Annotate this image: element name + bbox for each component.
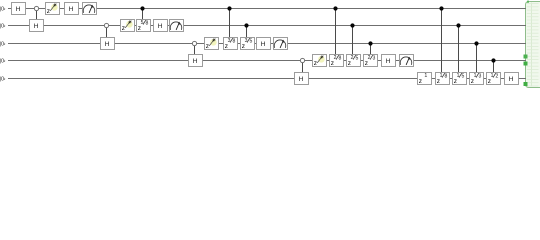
svg-text:3: 3: [372, 56, 375, 62]
open control q2 (drives H q3): [104, 23, 108, 27]
gate Z^3/5 q3: [241, 38, 255, 50]
svg-text:1: 1: [474, 73, 477, 79]
svg-text:|0›: |0›: [0, 7, 6, 13]
open control q4 (drives H q5): [300, 58, 304, 62]
gate Z^5/8 q2: [137, 20, 151, 32]
svg-text:|0›: |0›: [0, 59, 6, 65]
control line x194.5: [194, 43, 196, 55]
gate H q3 col: [257, 38, 271, 50]
panel texture lines: [527, 4, 539, 87]
control dot q1 -> Z3/8 q3: [227, 6, 231, 10]
gate Z^1 q5: [418, 73, 432, 85]
gate H q3 (controlled): [101, 38, 115, 50]
control dot q2 -> Z3/5 q3: [244, 23, 248, 27]
control line x106.5: [106, 25, 108, 38]
svg-text:8: 8: [338, 56, 341, 62]
panel green marker b: [524, 62, 528, 66]
control line x335.5: [335, 8, 337, 55]
measure gate q3: [274, 38, 288, 50]
control line x493.5: [493, 60, 495, 73]
panel marker tick top: [527, 1, 529, 3]
control dot q4 -> Z1/2 q5: [491, 58, 495, 62]
control line x246.5: [246, 25, 248, 38]
control line x370.5: [370, 43, 372, 55]
control line x36.5: [36, 8, 38, 20]
svg-text:1: 1: [440, 73, 443, 79]
output state panel: [526, 2, 540, 88]
svg-text:3: 3: [245, 38, 248, 44]
gate H q4 (controlled): [189, 55, 203, 67]
open control q1 (drives H q2): [34, 6, 38, 10]
gate Z^2/5 q4: [347, 55, 361, 67]
svg-text:2: 2: [495, 74, 498, 80]
measure gate q1: [83, 3, 97, 15]
svg-text:H: H: [16, 6, 21, 13]
svg-text:H: H: [386, 58, 391, 65]
control line x441.5: [441, 8, 443, 73]
svg-text:H: H: [34, 23, 39, 30]
svg-text:z: z: [47, 8, 50, 15]
svg-text:3: 3: [478, 74, 481, 80]
gate Z^1/2 q5: [487, 73, 501, 85]
control line x458.5: [458, 25, 460, 73]
svg-text:5: 5: [461, 74, 464, 80]
svg-text:H: H: [299, 76, 304, 83]
gate H q1 col4: [65, 3, 79, 15]
svg-text:z: z: [206, 43, 209, 50]
control line x476.5: [476, 43, 478, 73]
control line x142.5: [142, 8, 144, 20]
svg-text:5: 5: [249, 39, 252, 45]
gate Z^1/8 q5: [436, 73, 450, 85]
control dot q3 -> Z2/3 q4: [368, 41, 372, 45]
svg-text:z: z: [314, 60, 317, 67]
svg-text:5: 5: [355, 56, 358, 62]
wire q5: [8, 78, 526, 80]
control dot q2 -> Z1/5 q5: [456, 23, 460, 27]
svg-text:H: H: [69, 6, 74, 13]
svg-text:H: H: [158, 23, 163, 30]
svg-text:3: 3: [228, 38, 231, 44]
gate H q4 col: [382, 55, 396, 67]
wire q1: [8, 8, 526, 10]
svg-text:2: 2: [368, 55, 371, 61]
gate Z^3/8 q3: [224, 38, 238, 50]
svg-text:1: 1: [424, 73, 427, 79]
svg-text:z: z: [122, 25, 125, 32]
svg-text:2: 2: [334, 55, 337, 61]
control line x352.5: [352, 25, 354, 55]
control dot q1 -> Z5/8 q2: [140, 6, 144, 10]
svg-text:H: H: [105, 41, 110, 48]
svg-text:8: 8: [444, 74, 447, 80]
wire q4: [8, 60, 526, 62]
gate H q1 col1: [12, 3, 26, 15]
wire q2: [8, 25, 526, 27]
open control q3 (drives H q4): [192, 41, 196, 45]
control dot q2 -> Z2/5 q4: [350, 23, 354, 27]
gate Z-random q2: [121, 20, 135, 32]
svg-text:|0›: |0›: [0, 77, 6, 83]
svg-text:|0›: |0›: [0, 42, 6, 48]
gate Z^1/5 q5: [453, 73, 467, 85]
gate H q5 (controlled): [295, 73, 309, 85]
panel green marker a: [524, 55, 528, 59]
control line x229.5: [229, 8, 231, 38]
svg-text:8: 8: [232, 39, 235, 45]
gate H q5 final: [505, 73, 519, 85]
svg-text:2: 2: [351, 55, 354, 61]
svg-text:8: 8: [145, 21, 148, 27]
control dot q1 -> Z2/8 q4: [333, 6, 337, 10]
gate Z-random q1: [46, 3, 60, 15]
gate Z^2/3 q4: [364, 55, 378, 67]
gate H q2 col: [154, 20, 168, 32]
measure gate q2: [170, 20, 184, 32]
svg-text:1: 1: [457, 73, 460, 79]
svg-text:z: z: [419, 78, 422, 85]
control dot q3 -> Z1/3 q5: [474, 41, 478, 45]
svg-text:1: 1: [491, 73, 494, 79]
panel green marker c: [524, 82, 528, 86]
control line x302.5: [302, 60, 304, 73]
gate Z-random q4: [313, 55, 327, 67]
svg-text:H: H: [193, 58, 198, 65]
gate H q2 (controlled): [30, 20, 44, 32]
svg-text:5: 5: [141, 20, 144, 26]
gate Z-random q3: [205, 38, 219, 50]
svg-text:H: H: [509, 76, 514, 83]
gate Z^1/3 q5: [470, 73, 484, 85]
wire q3: [8, 43, 526, 45]
svg-text:H: H: [261, 41, 266, 48]
measure gate q4: [400, 55, 414, 67]
gate Z^2/8 q4: [330, 55, 344, 67]
control dot q1 -> Z1/8 q5: [439, 6, 443, 10]
svg-text:|0›: |0›: [0, 24, 6, 30]
